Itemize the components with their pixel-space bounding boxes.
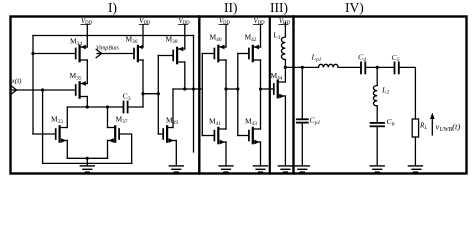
divider III/IV — [292, 17, 294, 174]
frame border — [11, 17, 467, 174]
transistor M40 (PMOS) — [214, 45, 226, 62]
junction inverter2 out — [259, 87, 262, 90]
wire inverter1 gate column — [201, 54, 203, 136]
wire M38 gate line — [158, 55, 173, 57]
transistor M42 (PMOS) — [249, 45, 261, 62]
wire C3 to M36 drain — [128, 106, 143, 108]
junction M36 drain bridge — [141, 92, 144, 95]
wire M41 source to ground — [225, 142, 227, 166]
wire L2 to C6 — [376, 106, 378, 123]
ground (M41) — [219, 166, 233, 172]
wire M37 drain up — [107, 107, 109, 128]
wire x(t) bottom run — [43, 162, 132, 164]
junction inverter1 out — [224, 87, 227, 90]
capacitor C5 — [395, 62, 399, 73]
transistor M39 (NMOS) — [163, 126, 176, 143]
wire output node line of I — [173, 88, 202, 90]
wire VDD4 stem to M40 — [225, 25, 227, 47]
ground (RL) — [408, 166, 422, 172]
wire M44 source to ground — [284, 96, 286, 166]
junction L2 tap — [376, 66, 379, 69]
wire VDD5 stem to M42 — [260, 25, 262, 47]
svg-text:VimpBias: VimpBias — [96, 46, 120, 52]
wire M33 drain up to node A — [66, 107, 68, 128]
output arrow vUWB — [430, 113, 435, 135]
wire C4 to C5 — [365, 66, 394, 68]
capacitor C3 — [124, 102, 128, 113]
label VDD6 — [278, 18, 290, 26]
junction inverter2 gate column — [236, 87, 239, 90]
wire feedback top rail — [33, 35, 194, 37]
transistor M38 (PMOS) — [173, 47, 185, 64]
wire M36 drain column — [142, 60, 144, 107]
wire inverter1 output column — [225, 60, 227, 129]
transistor M36 (PMOS) — [134, 45, 143, 61]
capacitor C4 — [361, 62, 365, 73]
ground (M44) — [278, 166, 292, 172]
transistor M43 (NMOS) — [249, 128, 261, 145]
junction M37 drain on node A — [106, 105, 109, 108]
inductor L1 — [281, 37, 285, 59]
capacitor Cp1 — [297, 119, 308, 122]
wire M34 source to M35 drain — [86, 60, 88, 84]
wire M39 drain up — [172, 89, 174, 128]
inductor L2 — [373, 86, 377, 106]
wire M34 gate line — [33, 53, 76, 55]
wire M44 drain up — [284, 67, 286, 82]
divider I/II — [198, 17, 200, 174]
wire bridge to bias column — [143, 93, 158, 95]
junction M35 source on node A — [86, 105, 89, 108]
wire M38 drain down — [184, 62, 186, 89]
transistor M37 (NMOS mirrored) — [108, 126, 120, 143]
ground (Cp1) — [295, 166, 309, 172]
input x(t) arrow — [11, 86, 76, 94]
inductor Lp1 — [319, 64, 339, 67]
wire M33 gate line — [33, 133, 56, 135]
ground (C6) — [370, 166, 384, 172]
wire VDD1 stem to M34 — [86, 25, 88, 47]
wire node B to Lp1 — [285, 66, 318, 68]
wire feedback right column — [193, 36, 195, 153]
wire M33 source down — [66, 141, 68, 159]
transistor M44 (NMOS) — [274, 81, 286, 99]
wire Cp1 stem — [301, 67, 303, 119]
wire inverter2 gate column — [237, 54, 239, 136]
junction M38 drain — [183, 87, 186, 90]
wire C6 to ground — [376, 126, 378, 166]
label VDD1 — [81, 18, 93, 26]
label VDD2 — [139, 18, 151, 26]
svg-text:III): III) — [270, 0, 288, 15]
wire M39 source to ground — [175, 141, 177, 166]
label VDD5 — [253, 18, 265, 26]
wire M41 gate line — [202, 135, 214, 137]
wire L2 stem — [376, 67, 378, 85]
svg-text:II): II) — [224, 0, 238, 15]
junction tail node — [86, 157, 89, 160]
transistor M34 (PMOS) — [76, 45, 88, 62]
junction feedback column — [192, 87, 195, 90]
wire M40 gate line — [202, 53, 214, 55]
transistor M33 (NMOS) — [56, 126, 68, 143]
svg-text:x(t): x(t) — [11, 77, 22, 85]
wire VDD6 stem to L1 — [284, 23, 286, 38]
divider II/III (boundary line with ground) — [269, 17, 271, 174]
junction x(t) split — [41, 88, 44, 91]
wire M35 source down to node A — [86, 97, 88, 108]
wire feedback left column — [32, 36, 34, 135]
wire node A line — [67, 106, 123, 108]
capacitor C6 — [371, 123, 385, 126]
wire VDD3 stem to M38 — [184, 25, 186, 49]
wire VDD2 stem to M36 — [142, 25, 144, 47]
wire tail to ground — [86, 158, 88, 166]
wire inverter2 out to M44 gate — [261, 88, 274, 90]
junction Cp1 tap — [301, 66, 304, 69]
junction feedback/M34 gate — [31, 52, 34, 55]
wire bias column — [157, 56, 159, 135]
wire M43 gate line — [238, 135, 249, 137]
wire M39 gate line — [158, 133, 163, 135]
ground (diff pair) — [80, 166, 94, 172]
svg-text:IV): IV) — [345, 0, 364, 15]
wire common source line — [67, 157, 107, 159]
resistor RL — [412, 119, 418, 137]
wire M42 gate line — [238, 53, 249, 55]
label VDD3 — [178, 18, 190, 26]
svg-text:I): I) — [108, 0, 117, 15]
wire L1 to node B — [284, 59, 286, 67]
wire M43 source to ground — [260, 142, 262, 166]
wire RL to ground — [414, 137, 416, 166]
wire x(t) down column — [42, 90, 44, 163]
label VDD4 — [219, 18, 231, 26]
ground (M43) — [254, 166, 268, 172]
wire Lp1 to C4 — [338, 66, 361, 68]
wire M37 source down — [107, 141, 109, 159]
transistor M41 (NMOS) — [214, 128, 226, 145]
wire C5 to RL — [399, 67, 416, 119]
ground (M39) — [169, 166, 183, 172]
wire bridge inv1 to inv2 — [226, 88, 238, 90]
junction node B — [284, 66, 287, 69]
wire x(t) up to M37 gate — [119, 134, 132, 163]
junction bias column — [157, 92, 160, 95]
wire inverter2 output column — [260, 60, 262, 129]
input VimpBias arrow — [96, 49, 134, 57]
wire Cp1 to ground — [301, 123, 303, 166]
transistor M35 (PMOS) — [76, 81, 88, 98]
